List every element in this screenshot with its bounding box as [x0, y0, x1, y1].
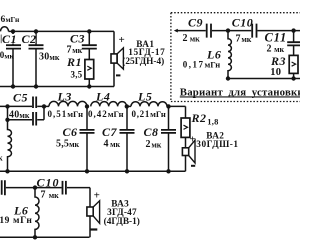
svg-text:0,51мГн: 0,51мГн: [48, 109, 84, 119]
svg-text:R3: R3: [270, 54, 286, 68]
svg-text:+: +: [119, 34, 125, 46]
svg-text:7мк: 7мк: [67, 45, 83, 56]
svg-text:7 мк: 7 мк: [41, 190, 60, 201]
svg-text:C8: C8: [144, 125, 159, 139]
svg-text:C10: C10: [37, 175, 60, 189]
svg-text:10: 10: [270, 67, 281, 78]
svg-text:C2: C2: [22, 32, 37, 46]
svg-text:0,42мГн: 0,42мГн: [88, 109, 124, 119]
svg-text:6мГн: 6мГн: [1, 15, 21, 25]
svg-text:0,17мГн: 0,17мГн: [183, 59, 221, 69]
svg-text:2мк: 2мк: [146, 139, 162, 150]
svg-text:0,21мГн: 0,21мГн: [132, 109, 166, 119]
svg-text:40мк: 40мк: [9, 110, 30, 121]
svg-text:7мк: 7мк: [236, 34, 252, 45]
svg-text:30ГДШ-1: 30ГДШ-1: [196, 140, 238, 150]
svg-text:C10: C10: [232, 16, 254, 30]
svg-text:+: +: [190, 134, 196, 146]
svg-text:C1: C1: [2, 32, 17, 46]
svg-text:L4: L4: [95, 90, 110, 104]
svg-text:C11: C11: [265, 31, 288, 45]
svg-text:2 мк: 2 мк: [267, 44, 285, 55]
svg-text:4мк: 4мк: [104, 139, 121, 150]
svg-text:+: +: [94, 189, 100, 201]
svg-text:C3: C3: [70, 32, 85, 46]
svg-text:к: к: [0, 154, 3, 163]
svg-text:0,19 мГн: 0,19 мГн: [0, 216, 32, 226]
svg-text:L5: L5: [137, 90, 152, 104]
svg-text:(4ГДВ-1): (4ГДВ-1): [104, 216, 140, 227]
svg-text:10мк: 10мк: [0, 50, 15, 61]
svg-text:2 мк: 2 мк: [183, 33, 201, 44]
svg-text:C9: C9: [188, 16, 203, 30]
svg-text:3,5: 3,5: [71, 69, 83, 79]
svg-text:R2: R2: [191, 111, 207, 125]
svg-text:5,5мк: 5,5мк: [56, 139, 80, 150]
svg-text:L3: L3: [57, 90, 72, 104]
svg-text:C5: C5: [13, 91, 28, 105]
svg-text:(25ГДН-4): (25ГДН-4): [122, 56, 164, 67]
svg-text:R1: R1: [66, 55, 82, 69]
svg-text:30мк: 30мк: [39, 52, 60, 63]
svg-text:C6: C6: [63, 125, 78, 139]
svg-text:1,8: 1,8: [207, 117, 218, 127]
svg-text:C7: C7: [102, 125, 118, 139]
